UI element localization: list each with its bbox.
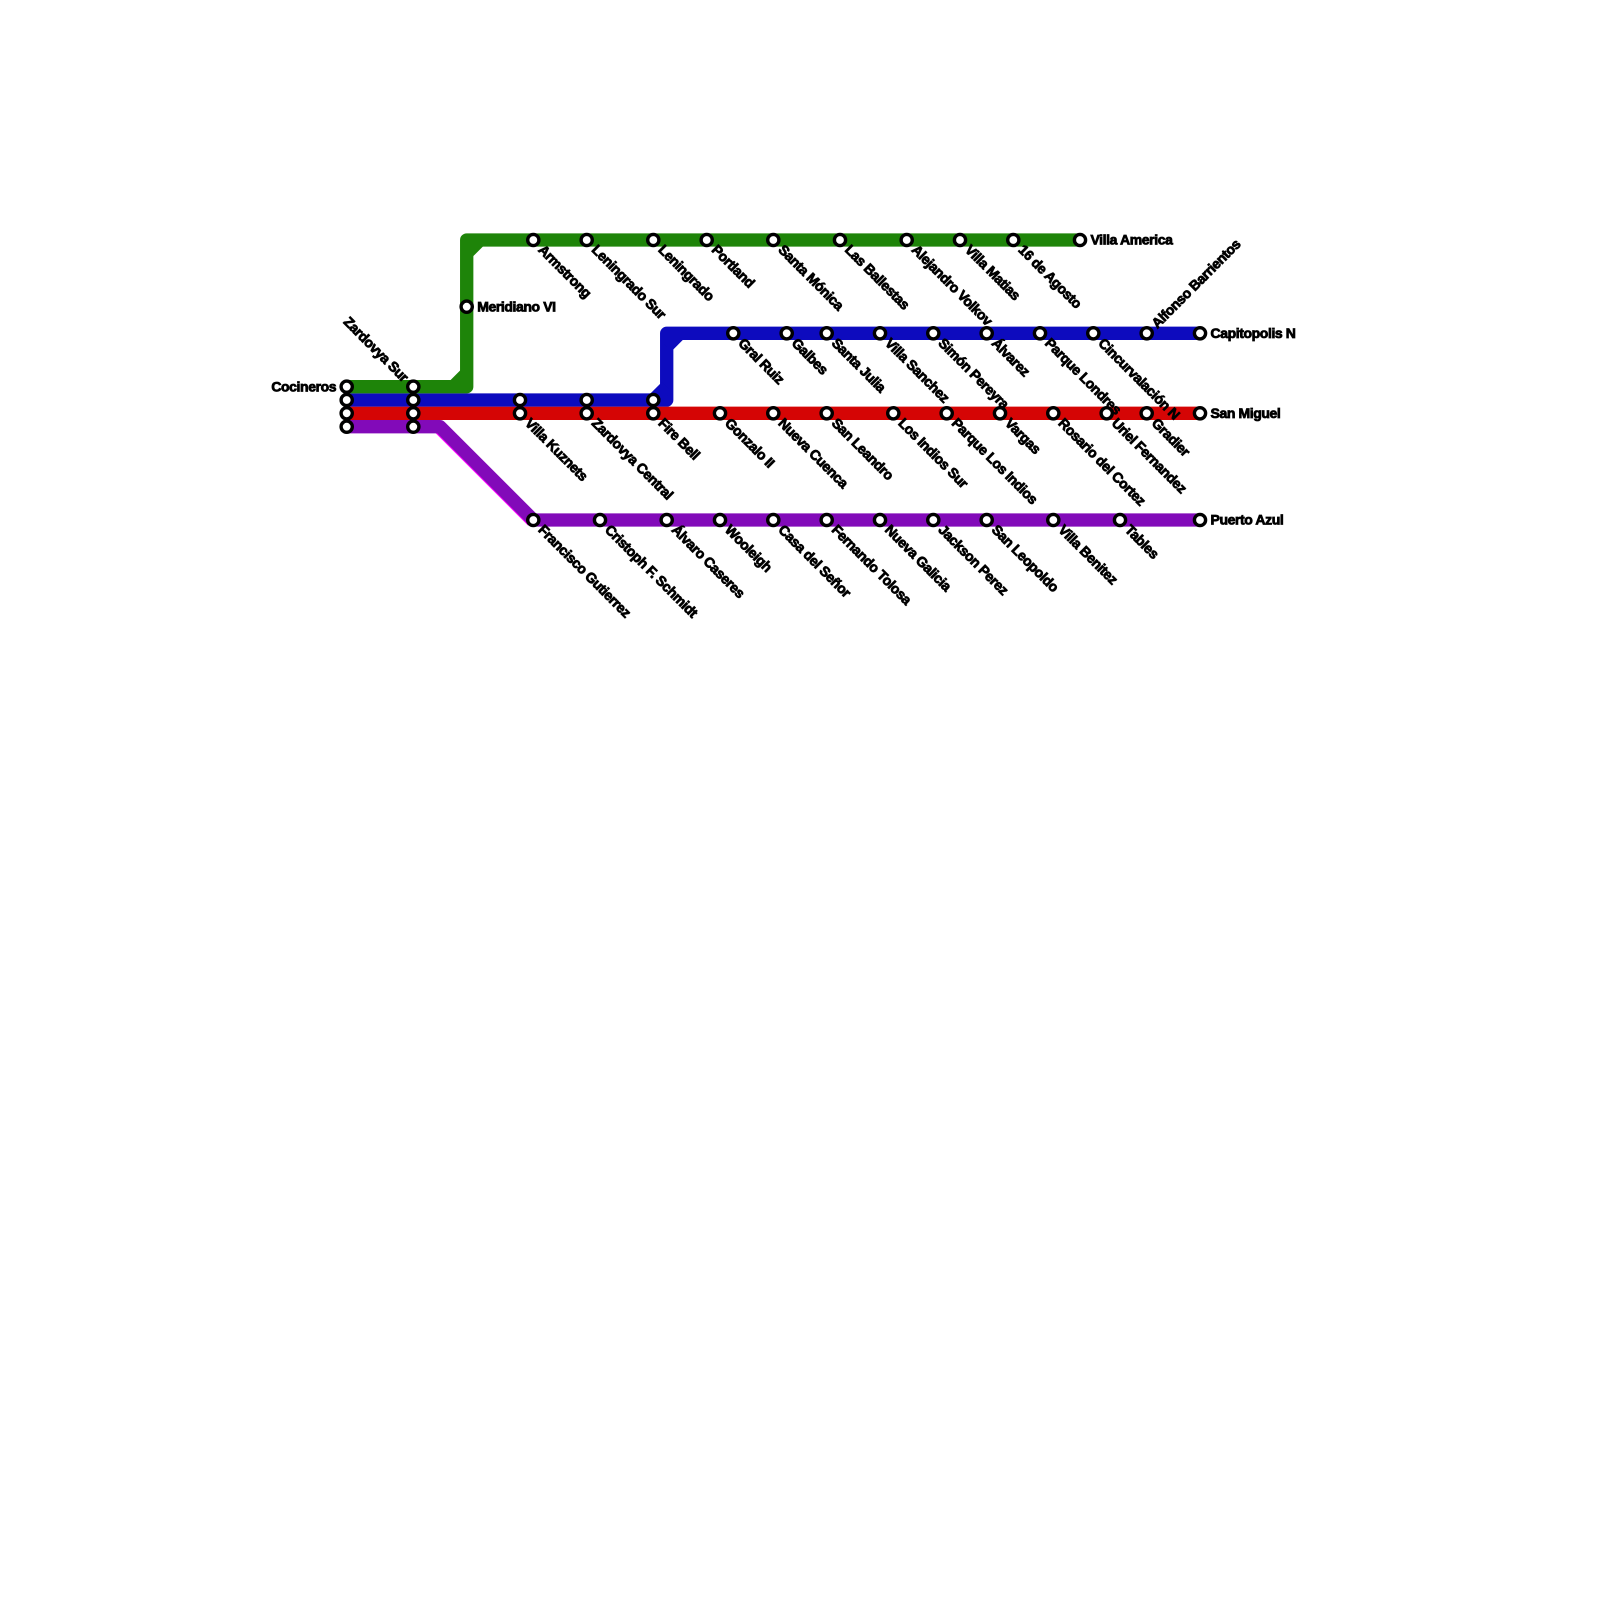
station San Leandro (62,31) xyxy=(821,408,832,419)
station Capitopolis N (90,25) xyxy=(1194,328,1205,339)
station Puerto Azul (90,39) xyxy=(1194,514,1205,525)
station interchange stop (39,30) xyxy=(514,394,525,405)
svg-text:Capitopolis N: Capitopolis N xyxy=(1211,325,1296,341)
station Francisco Gutierrez (40,39) xyxy=(528,514,539,525)
station Cocineros (26,29) xyxy=(341,381,352,392)
station Simón Pereyra (70,25) xyxy=(928,328,939,339)
station Villa Sanchez (66,25) xyxy=(874,328,885,339)
station Villa Matias (72,18) xyxy=(954,234,965,245)
station Fire Bell (49,31) xyxy=(648,408,659,419)
station Portland (53,18) xyxy=(701,234,712,245)
station interchange stop (26,32) xyxy=(341,421,352,432)
green line xyxy=(347,240,1080,387)
station interchange stop (49,30) xyxy=(648,394,659,405)
station Las Ballestas (63,18) xyxy=(834,234,845,245)
svg-text:Cocineros: Cocineros xyxy=(271,378,336,394)
station Wooleigh (54,39) xyxy=(714,514,725,525)
purple line xyxy=(347,427,1200,520)
svg-text:Puerto Azul: Puerto Azul xyxy=(1211,512,1284,528)
station 16 de Agosto (76,18) xyxy=(1008,234,1019,245)
station Zardovya Sur (31,29) xyxy=(408,381,419,392)
station Nueva Cuenca (58,31) xyxy=(768,408,779,419)
svg-text:Villa America: Villa America xyxy=(1091,232,1174,248)
green line corner chamfer (upper) xyxy=(467,240,480,253)
station Zardovya Central (44,31) xyxy=(581,408,592,419)
station Leningrado (49,18) xyxy=(648,234,659,245)
station Gradier (86,31) xyxy=(1141,408,1152,419)
station Uriel Fernandez (83,31) xyxy=(1101,408,1112,419)
svg-text:San Miguel: San Miguel xyxy=(1211,405,1281,421)
red line xyxy=(347,407,1200,420)
station Gonzalo II (54,31) xyxy=(714,408,725,419)
station Álvarez (74,25) xyxy=(981,328,992,339)
station Cristoph F. Schmidt (45,39) xyxy=(594,514,605,525)
station Santa Mónica (58,18) xyxy=(768,234,779,245)
station Rosario del Cortez (79,31) xyxy=(1048,408,1059,419)
station Alfonso Barrientos (86,25) xyxy=(1141,328,1152,339)
station Jackson Perez (70,39) xyxy=(928,514,939,525)
station Galbes (59,25) xyxy=(781,328,792,339)
station interchange stop (44,30) xyxy=(581,394,592,405)
station Cincurvalación N (82,25) xyxy=(1088,328,1099,339)
station San Leopoldo (74,39) xyxy=(981,514,992,525)
station Meridiano VI (35,23) xyxy=(461,301,472,312)
station Santa Julia (62,25) xyxy=(821,328,832,339)
station Leningrado Sur (44,18) xyxy=(581,234,592,245)
station Villa America (81,18) xyxy=(1074,234,1085,245)
station Villa Benitez (79,39) xyxy=(1048,514,1059,525)
svg-text:Meridiano VI: Meridiano VI xyxy=(477,298,555,314)
blue line corner chamfer (lower) xyxy=(653,387,666,400)
station Parque Los Indios (71,31) xyxy=(941,408,952,419)
station Parque Londres (78,25) xyxy=(1034,328,1045,339)
station Alejandro Volkov (68,18) xyxy=(901,234,912,245)
station interchange stop (31,30) xyxy=(408,394,419,405)
station Casa del Señor (58,39) xyxy=(768,514,779,525)
station Vargas (75,31) xyxy=(994,408,1005,419)
green line corner chamfer (lower) xyxy=(453,373,466,386)
station Gral Ruiz (55,25) xyxy=(728,328,739,339)
station interchange stop (31,32) xyxy=(408,421,419,432)
station Álvaro Caseres (50,39) xyxy=(661,514,672,525)
station Armstrong (40,18) xyxy=(528,234,539,245)
station interchange stop (26,30) xyxy=(341,394,352,405)
station Villa Kuznets (39,31) xyxy=(514,408,525,419)
station Tables (84,39) xyxy=(1114,514,1125,525)
magenta line (hidden beneath purple; fringe visible along diagonal) xyxy=(439,428,532,521)
blue line corner chamfer (upper) xyxy=(667,333,680,346)
station Fernando Tolosa (62,39) xyxy=(821,514,832,525)
station Los Indios Sur (67,31) xyxy=(888,408,899,419)
station San Miguel (90,31) xyxy=(1194,408,1205,419)
station Nueva Galicia (66,39) xyxy=(874,514,885,525)
station interchange stop (31,31) xyxy=(408,408,419,419)
station interchange stop (26,31) xyxy=(341,408,352,419)
blue line xyxy=(347,333,1200,400)
